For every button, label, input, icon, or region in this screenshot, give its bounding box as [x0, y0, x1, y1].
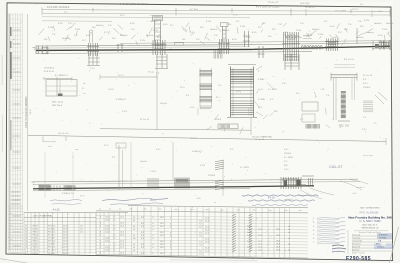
- mid-left lower line: [100, 129, 251, 131]
- svg-text:2'-3⅛: 2'-3⅛: [200, 165, 205, 167]
- svg-text:PLS 14x: PLS 14x: [48, 225, 55, 227]
- svg-text:8'-3: 8'-3: [141, 244, 144, 246]
- svg-text:xxx: xxx: [130, 208, 133, 210]
- annotation texts upper zone: [38, 20, 393, 46]
- svg-text:2'-3⅛: 2'-3⅛: [318, 34, 323, 36]
- svg-text:24: 24: [133, 238, 135, 240]
- svg-text:2'-3⅛: 2'-3⅛: [226, 24, 231, 26]
- lower girder right dense cluster: [281, 176, 314, 189]
- svg-text:9: 9: [100, 240, 101, 242]
- svg-text:6: 6: [170, 226, 171, 228]
- svg-text:PLS 10x: PLS 10x: [48, 241, 55, 243]
- svg-text:11'-2: 11'-2: [258, 235, 262, 237]
- svg-text:21'-0: 21'-0: [205, 242, 209, 244]
- stiffener cluster @x=93: [87, 43, 99, 56]
- svg-text:24: 24: [133, 250, 135, 252]
- svg-text:L4x4x⅜: L4x4x⅜: [96, 25, 103, 27]
- notes list block x312-348: [313, 164, 346, 252]
- svg-text:21'-0: 21'-0: [205, 251, 209, 253]
- svg-text:xxx: xxx: [221, 209, 224, 211]
- svg-text:11'-2: 11'-2: [258, 249, 262, 251]
- svg-text:xx: xx: [214, 202, 216, 204]
- svg-text:x4: x4: [288, 238, 290, 240]
- svg-text:PL ⅜ x 14: PL ⅜ x 14: [363, 75, 373, 77]
- stiffener cluster @x=382: [379, 40, 386, 50]
- svg-text:24: 24: [133, 220, 135, 222]
- svg-text:CAL-07: CAL-07: [329, 164, 343, 169]
- svg-text:21'-0: 21'-0: [205, 218, 209, 220]
- svg-text:3-¾ RIVS: 3-¾ RIVS: [284, 156, 293, 159]
- svg-text:12'-6: 12'-6: [120, 247, 124, 249]
- svg-text:x-x: x-x: [83, 93, 86, 95]
- svg-text:24: 24: [133, 217, 135, 219]
- svg-text:12'-6: 12'-6: [120, 241, 124, 243]
- svg-text:LS 3x3x: LS 3x3x: [48, 244, 55, 246]
- svg-text:2-6x4: 2-6x4: [105, 241, 110, 243]
- svg-text:21'-0: 21'-0: [205, 233, 209, 235]
- svg-text:12'-6: 12'-6: [120, 226, 124, 228]
- svg-text:SEC. G-G: SEC. G-G: [339, 126, 350, 128]
- svg-text:2-6x4: 2-6x4: [105, 229, 110, 231]
- svg-text:8'-3: 8'-3: [141, 247, 144, 249]
- signature table: [348, 230, 393, 255]
- svg-text:15/16 Ø: 15/16 Ø: [363, 87, 371, 89]
- crane girder (top band) top flange lines: [120, 41, 390, 44]
- svg-text:10¾: 10¾: [360, 25, 364, 28]
- svg-text:10¾: 10¾: [92, 26, 96, 29]
- rivet loop row @301-323: [302, 36, 323, 50]
- svg-text:7-9: 7-9: [199, 251, 202, 253]
- svg-text:4 x 11: 4 x 11: [53, 208, 60, 211]
- svg-text:2 PLS 6x⅜: 2 PLS 6x⅜: [44, 68, 54, 70]
- svg-text:7-9: 7-9: [199, 227, 202, 229]
- svg-text:15/16 Ø: 15/16 Ø: [284, 153, 292, 155]
- svg-text:10¾: 10¾: [296, 92, 300, 95]
- svg-text:x 4'-2: x 4'-2: [352, 193, 357, 195]
- svg-text:10: 10: [25, 247, 27, 249]
- svg-text:8: 8: [25, 253, 26, 255]
- stiffener cluster @x=159: [152, 40, 167, 55]
- svg-text:1'-10¾: 1'-10¾: [108, 88, 114, 91]
- svg-text:24: 24: [133, 247, 135, 249]
- svg-text:DET. No 4: DET. No 4: [52, 105, 63, 107]
- svg-text:xxx: xxx: [206, 209, 209, 211]
- svg-text:7-9: 7-9: [199, 236, 202, 238]
- svg-text:14.6: 14.6: [160, 223, 164, 225]
- svg-text:8'-3: 8'-3: [141, 226, 144, 228]
- svg-text:6-¾ RIVS 1'-3: 6-¾ RIVS 1'-3: [55, 74, 68, 77]
- construction verticals mid-lower: [44, 152, 46, 198]
- svg-text:19'-8: 19'-8: [276, 241, 280, 243]
- svg-text:xxx: xxx: [253, 210, 256, 212]
- svg-text:9: 9: [100, 231, 101, 233]
- svg-text:12: 12: [25, 241, 27, 243]
- svg-text:6: 6: [170, 241, 171, 243]
- lower girder mid clusters: [148, 178, 189, 190]
- svg-text:x3: x3: [83, 83, 85, 85]
- tall column assembly @224 above band: [221, 23, 229, 42]
- svg-text:4 LS 6x: 4 LS 6x: [32, 228, 39, 230]
- svg-text:4 LS 4x: 4 LS 4x: [32, 238, 39, 240]
- svg-text:2'-3⅛: 2'-3⅛: [206, 21, 211, 23]
- svg-text:SERVICES No. 26: SERVICES No. 26: [361, 228, 379, 230]
- svg-text:16: 16: [25, 228, 27, 230]
- svg-text:2'-3⅛: 2'-3⅛: [140, 40, 145, 42]
- detail section left (x44-92): [44, 68, 86, 108]
- svg-text:15/16 Ø: 15/16 Ø: [208, 175, 216, 177]
- crane girder (top band) bottom flange: [36, 52, 312, 54]
- svg-text:xx-x: xx-x: [75, 149, 79, 151]
- svg-text:21'-0: 21'-0: [205, 227, 209, 229]
- svg-text:Scale: ¼"=1'-0": Scale: ¼"=1'-0": [352, 252, 365, 255]
- svg-text:21'-0: 21'-0: [205, 248, 209, 250]
- svg-text:12'-6: 12'-6: [120, 253, 124, 255]
- svg-text:19'-8: 19'-8: [276, 247, 280, 249]
- svg-text:2'-3⅛: 2'-3⅛: [364, 20, 369, 22]
- svg-text:8'-3: 8'-3: [141, 235, 144, 237]
- hanger below band @161: [155, 54, 168, 75]
- stiffener cluster @x=291: [282, 32, 300, 61]
- svg-text:L4x4x⅜: L4x4x⅜: [374, 23, 381, 25]
- svg-text:x4: x4: [288, 249, 290, 251]
- svg-text:7-9: 7-9: [199, 245, 202, 247]
- svg-text:13'-10¹⁵⁄₁₆: 13'-10¹⁵⁄₁₆: [305, 6, 315, 9]
- svg-text:LS 6x4x: LS 6x4x: [48, 228, 55, 230]
- svg-text:x2 L: x2 L: [80, 225, 84, 227]
- svg-text:xxx: xxx: [159, 209, 162, 211]
- svg-text:xx: xx: [109, 208, 111, 210]
- svg-text:H.B.: H.B.: [378, 241, 382, 243]
- svg-text:x4: x4: [288, 229, 290, 231]
- texts above lower band: [43, 133, 273, 177]
- svg-text:xxx xx xxxx: xxx xx xxxx: [363, 155, 373, 157]
- hanger detail below band @93: [87, 54, 100, 70]
- svg-text:12'-6: 12'-6: [120, 217, 124, 219]
- svg-text:W.S.: W.S.: [376, 244, 380, 246]
- svg-text:xxx: xxx: [175, 209, 178, 211]
- svg-text:24: 24: [133, 235, 135, 237]
- svg-text:9: 9: [25, 250, 26, 252]
- svg-text:L4x4x⅜: L4x4x⅜: [356, 37, 363, 39]
- built-up column ladder x229-256: [227, 65, 257, 118]
- right annotation stack (x283-302): [284, 147, 293, 171]
- hanger below band @292: [285, 54, 299, 70]
- svg-text:14: 14: [25, 234, 27, 236]
- svg-text:2'-3⅛: 2'-3⅛: [48, 27, 53, 29]
- svg-text:xxx: xxx: [144, 209, 147, 211]
- svg-text:2 PLS 1: 2 PLS 1: [32, 225, 39, 227]
- svg-text:Checked by: Checked by: [352, 240, 362, 242]
- svg-text:6: 6: [170, 244, 171, 246]
- top dimension line A: [42, 10, 390, 12]
- svg-text:10¾: 10¾: [44, 38, 48, 41]
- svg-text:2-6x4: 2-6x4: [105, 247, 110, 249]
- lower girder left end detail: [32, 182, 86, 198]
- svg-text:105 LB. CRANE RAIL: 105 LB. CRANE RAIL: [252, 136, 273, 139]
- svg-text:6 SPA @ 9": 6 SPA @ 9": [192, 150, 203, 153]
- svg-text:9: 9: [100, 252, 101, 254]
- svg-text:14.6: 14.6: [160, 217, 164, 219]
- svg-text:P.Wilson: P.Wilson: [377, 247, 384, 249]
- svg-text:2'-3⅛: 2'-3⅛: [240, 26, 245, 28]
- svg-text:NAVY DEPARTMENT: NAVY DEPARTMENT: [360, 207, 381, 210]
- svg-text:14.6: 14.6: [160, 241, 164, 243]
- svg-text:x4: x4: [288, 232, 290, 234]
- girder left end detail: [32, 46, 48, 55]
- svg-text:6 SPA @ 9": 6 SPA @ 9": [116, 98, 127, 101]
- mid scattered texts: [108, 81, 367, 134]
- svg-text:11: 11: [25, 244, 27, 246]
- svg-text:xxx: xxx: [191, 209, 194, 211]
- small boxes x300-322: [302, 102, 319, 129]
- svg-text:New York, N. Y.: New York, N. Y.: [363, 224, 378, 227]
- svg-text:2-6x4: 2-6x4: [105, 232, 110, 234]
- svg-text:xx: xx: [99, 208, 101, 210]
- svg-text:6: 6: [170, 235, 171, 237]
- svg-text:Approved: Approved: [352, 245, 360, 248]
- svg-text:10¾: 10¾: [284, 31, 288, 34]
- svg-text:9: 9: [100, 243, 101, 245]
- svg-text:6: 6: [170, 217, 171, 219]
- svg-text:8'-3: 8'-3: [141, 253, 144, 255]
- svg-text:14.6: 14.6: [160, 253, 164, 255]
- svg-text:59'-4: 59'-4: [30, 109, 32, 115]
- svg-text:App'd by: App'd by: [352, 248, 359, 251]
- svg-text:2'-3⅛: 2'-3⅛: [122, 111, 127, 113]
- stiffener cluster @x=332: [325, 39, 339, 52]
- svg-text:x2 L: x2 L: [80, 231, 84, 233]
- svg-text:11'-2: 11'-2: [258, 244, 262, 246]
- svg-text:11'-2: 11'-2: [258, 247, 262, 249]
- svg-text:19'-8: 19'-8: [276, 229, 280, 231]
- svg-text:7-9: 7-9: [199, 233, 202, 235]
- stiffener cluster @x=246.5: [243, 31, 250, 47]
- label pill on band @179: [175, 42, 184, 45]
- girder right end cluster: [372, 40, 390, 51]
- svg-text:2-6x4: 2-6x4: [105, 217, 110, 219]
- page corner artifacts: [170, 259, 258, 262]
- svg-text:PLS 14x: PLS 14x: [48, 247, 55, 249]
- svg-text:SEC. 11-11: SEC. 11-11: [52, 101, 64, 103]
- svg-text:24: 24: [133, 229, 135, 231]
- top dimension line D: [42, 20, 112, 23]
- lower runway girder dark line: [33, 186, 314, 189]
- vertical construction line x251 below ladder: [250, 118, 252, 135]
- svg-text:6 x 3½: 6 x 3½: [268, 196, 275, 200]
- svg-text:FACE TO FACE OF GIRDERS: FACE TO FACE OF GIRDERS: [25, 96, 28, 128]
- svg-text:23'-0¼: 23'-0¼: [352, 8, 359, 11]
- svg-text:14.6: 14.6: [160, 226, 164, 228]
- svg-text:L4x4x⅜: L4x4x⅜: [160, 103, 167, 105]
- svg-text:12'-6: 12'-6: [120, 244, 124, 246]
- svg-text:140'-10½ CRS. OF COLS.: 140'-10½ CRS. OF COLS.: [120, 2, 148, 6]
- svg-text:2-6 x 4 x 12: 2-6 x 4 x 12: [58, 133, 69, 135]
- svg-text:xxx: xxx: [285, 210, 288, 212]
- svg-text:x4: x4: [288, 244, 290, 246]
- svg-text:8'-3: 8'-3: [141, 223, 144, 225]
- svg-text:8'-3: 8'-3: [141, 232, 144, 234]
- svg-text:14.6: 14.6: [160, 232, 164, 234]
- svg-text:L4x4x⅜: L4x4x⅜: [210, 29, 217, 31]
- svg-text:45'-0: 45'-0: [150, 199, 156, 202]
- svg-text:2-6x4: 2-6x4: [105, 238, 110, 240]
- svg-text:Traced by: Traced by: [352, 236, 360, 239]
- material list table (left): [24, 212, 96, 254]
- svg-text:PL ⅜ x 14: PL ⅜ x 14: [140, 119, 150, 121]
- svg-text:21'-0: 21'-0: [205, 239, 209, 241]
- svg-text:xx-xx-xx: xx-xx-xx: [232, 257, 239, 259]
- dimension end ticks: [41, 7, 43, 11]
- svg-text:9: 9: [100, 216, 101, 218]
- stiffener cluster @x=261: [258, 46, 265, 58]
- svg-text:LIST OF MATERIAL: LIST OF MATERIAL: [33, 214, 53, 217]
- svg-text:7-9: 7-9: [199, 242, 202, 244]
- svg-text:2'-3⅛: 2'-3⅛: [153, 30, 158, 32]
- svg-text:6 LS 3x: 6 LS 3x: [32, 244, 39, 246]
- left column elevation strip: [8, 13, 23, 252]
- svg-text:see det. 9: see det. 9: [356, 186, 364, 189]
- column rivet bands x200-212: [200, 68, 213, 109]
- svg-text:14.6: 14.6: [160, 247, 164, 249]
- tall column assembly @157 above band: [153, 16, 163, 43]
- svg-text:3": 3": [258, 71, 260, 73]
- svg-text:13: 13: [25, 238, 27, 240]
- svg-text:2'-3⅛: 2'-3⅛: [296, 30, 301, 32]
- svg-text:x-x: x-x: [374, 11, 377, 13]
- leader curves to bottom-right: [284, 179, 368, 201]
- svg-text:U. S. NAVY YARD: U. S. NAVY YARD: [360, 219, 381, 223]
- mid-left dimension line: [100, 76, 157, 78]
- svg-text:W.P.: W.P.: [274, 111, 278, 113]
- svg-text:L4x4x⅜: L4x4x⅜: [222, 30, 229, 32]
- top dimension line C: [42, 17, 250, 18]
- rivet schedule table (center, wide): [96, 206, 308, 258]
- zigzag hatch marks x215-224: [215, 160, 224, 190]
- svg-text:15'-10 x 12: 15'-10 x 12: [268, 2, 279, 4]
- svg-text:7-9: 7-9: [199, 221, 202, 223]
- svg-text:2-6x4: 2-6x4: [105, 220, 110, 222]
- svg-text:1 PL 20: 1 PL 20: [32, 234, 39, 236]
- vertical hanger x118-126: [112, 143, 126, 190]
- svg-text:12 SPA: 12 SPA: [258, 98, 265, 101]
- svg-text:19'-8: 19'-8: [276, 235, 280, 237]
- svg-text:10¾: 10¾: [112, 37, 116, 40]
- svg-text:4 LS 5x: 4 LS 5x: [32, 253, 39, 255]
- svg-text:11'-2: 11'-2: [258, 241, 262, 243]
- svg-text:10¾: 10¾: [200, 26, 204, 29]
- stiffener cluster @x=120: [117, 44, 124, 52]
- svg-text:R.E.Ward: R.E.Ward: [379, 234, 387, 237]
- svg-text:PL 16x⅜: PL 16x⅜: [48, 250, 56, 252]
- svg-text:L4x4x⅜: L4x4x⅜: [150, 21, 157, 23]
- svg-text:8'-3: 8'-3: [141, 238, 144, 240]
- svg-text:2'-3⅛: 2'-3⅛: [75, 29, 80, 31]
- svg-text:x4: x4: [288, 226, 290, 228]
- svg-text:L4x4x⅜: L4x4x⅜: [312, 29, 319, 31]
- svg-text:Examined: Examined: [352, 243, 360, 245]
- svg-text:9: 9: [100, 222, 101, 224]
- svg-text:Drawn by: Drawn by: [352, 233, 360, 236]
- svg-text:9: 9: [100, 234, 101, 236]
- svg-text:2 PLS 1: 2 PLS 1: [32, 241, 39, 243]
- right mid detail x360-390: [363, 75, 387, 125]
- svg-text:L4x4x⅜: L4x4x⅜: [140, 161, 147, 163]
- svg-text:9 bays: 9 bays: [148, 71, 154, 73]
- svg-text:14.6: 14.6: [160, 244, 164, 246]
- svg-text:45'-0 CRS. OF COLS.: 45'-0 CRS. OF COLS.: [256, 5, 280, 8]
- svg-text:47'-10⅝: 47'-10⅝: [190, 8, 198, 11]
- mid horizontal reference line: [28, 135, 386, 141]
- svg-text:x-x: x-x: [150, 15, 152, 17]
- svg-text:11'-2: 11'-2: [258, 229, 262, 231]
- svg-text:(3'-0 5/16): (3'-0 5/16): [300, 3, 310, 5]
- svg-text:24: 24: [133, 244, 135, 246]
- svg-text:10¾: 10¾: [268, 35, 272, 38]
- svg-text:2'-3⅛: 2'-3⅛: [382, 29, 387, 31]
- svg-text:24: 24: [133, 226, 135, 228]
- ladder annotations: [216, 66, 265, 116]
- portal frame detail x330-358: [331, 65, 357, 128]
- svg-text:J.F.Kelly: J.F.Kelly: [379, 238, 386, 240]
- svg-text:x2 L: x2 L: [80, 228, 84, 230]
- vertical @357 above band: [356, 28, 358, 44]
- svg-text:14'-6 CRS. OF RAILS: 14'-6 CRS. OF RAILS: [47, 6, 70, 9]
- svg-text:10¾: 10¾: [272, 28, 276, 31]
- svg-text:19'-8: 19'-8: [276, 249, 280, 251]
- svg-text:x-xxx: x-xxx: [168, 255, 172, 257]
- svg-text:6 SPA: 6 SPA: [258, 78, 264, 81]
- svg-text:19'-8: 19'-8: [276, 244, 280, 246]
- handwritten notes above left table: [50, 199, 82, 211]
- svg-text:xx: xx: [119, 208, 121, 210]
- vertical grid line with rotated label: [27, 14, 29, 211]
- crane girder (top band) rail line (dark): [36, 46, 390, 50]
- svg-text:L4x4x⅜: L4x4x⅜: [120, 35, 127, 37]
- svg-text:12'-6: 12'-6: [120, 223, 124, 225]
- svg-text:F.P.O. No 290-585: F.P.O. No 290-585: [360, 213, 379, 215]
- svg-text:14.6: 14.6: [160, 235, 164, 237]
- svg-text:6: 6: [170, 247, 171, 249]
- svg-text:xxx: xxx: [269, 210, 272, 212]
- stiffener cluster @x=224: [218, 39, 230, 54]
- svg-text:6: 6: [170, 232, 171, 234]
- svg-text:W.P.: W.P.: [284, 165, 288, 167]
- svg-text:2-6x4: 2-6x4: [105, 226, 110, 228]
- column above band @91 with circle top: [89, 30, 92, 43]
- svg-text:7-9: 7-9: [199, 254, 202, 256]
- handwriting above center table: [102, 195, 318, 206]
- svg-text:12'-6: 12'-6: [120, 235, 124, 237]
- svg-text:21'-0: 21'-0: [205, 230, 209, 232]
- svg-text:PL 20x¾: PL 20x¾: [48, 233, 56, 236]
- title block: [348, 155, 392, 234]
- svg-text:12'-6: 12'-6: [120, 232, 124, 234]
- svg-text:@ 3": @ 3": [258, 107, 263, 109]
- svg-text:riveted conn.: riveted conn.: [298, 194, 309, 197]
- hatch mass below band @218: [213, 51, 215, 59]
- svg-text:7-9: 7-9: [199, 224, 202, 226]
- lower runway girder lines: [33, 179, 358, 182]
- svg-text:xxx: xxx: [299, 210, 302, 212]
- svg-text:SPLICE: SPLICE: [190, 138, 197, 140]
- top dimension line B: [42, 13, 390, 15]
- svg-text:F290-585: F290-585: [346, 256, 371, 262]
- svg-text:L4x4x⅜: L4x4x⅜: [386, 23, 393, 25]
- svg-text:2-6x4: 2-6x4: [105, 250, 110, 252]
- svg-text:9¾: 9¾: [374, 122, 377, 125]
- svg-text:15: 15: [25, 231, 27, 233]
- svg-text:21'-0: 21'-0: [205, 221, 209, 223]
